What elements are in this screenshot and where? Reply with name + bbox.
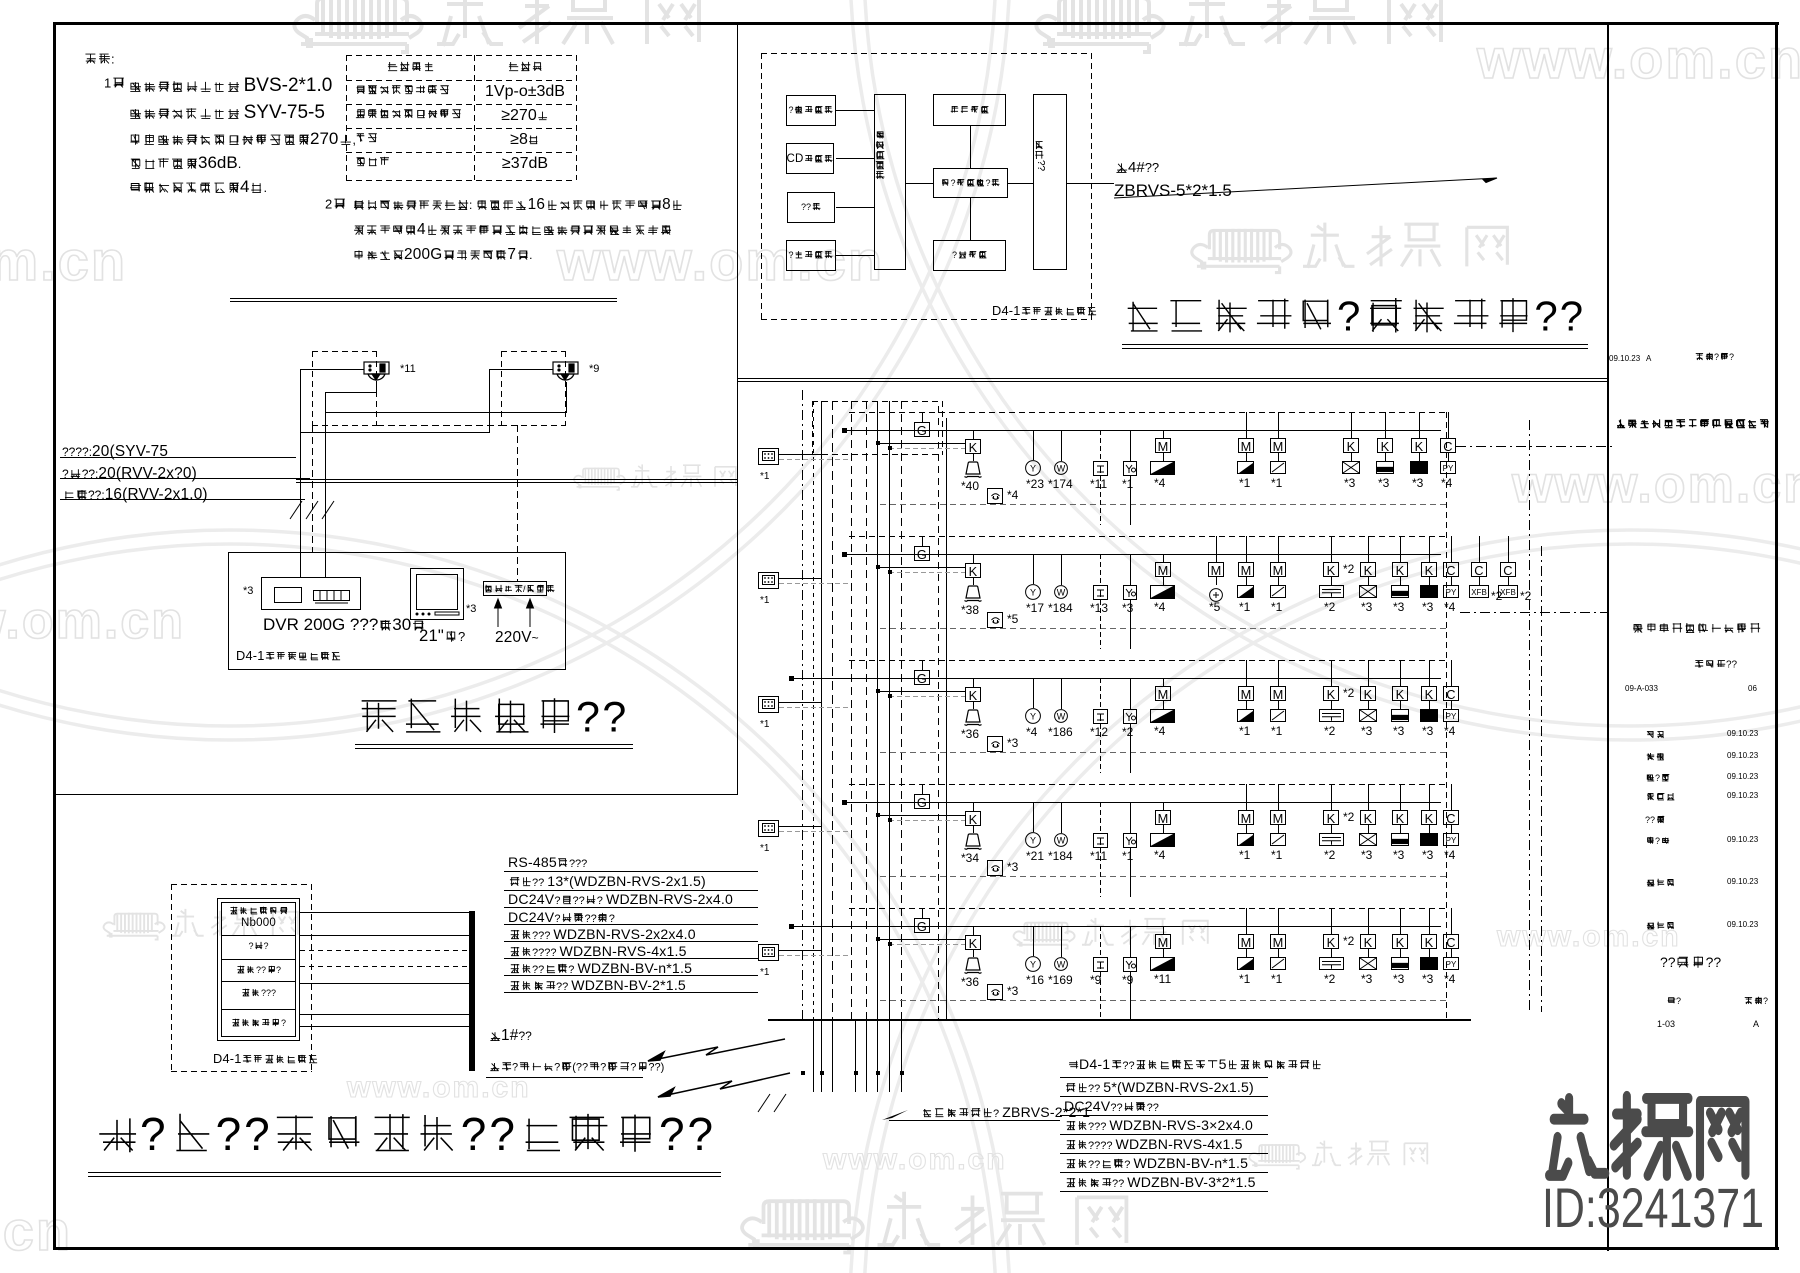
svg-text:ID:3241371: ID:3241371 (1542, 1176, 1764, 1239)
